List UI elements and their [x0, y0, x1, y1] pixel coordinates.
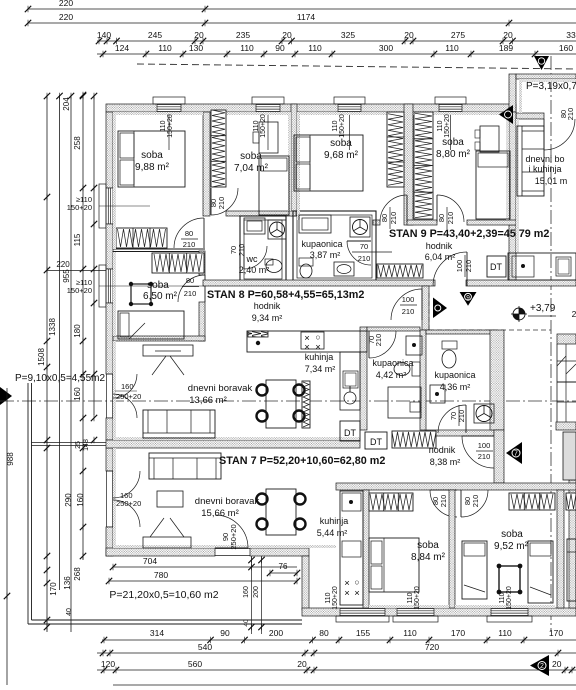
- svg-text:210: 210: [439, 495, 448, 508]
- svg-text:955: 955: [62, 269, 71, 283]
- exterior wall left: [106, 112, 113, 188]
- svg-text:210: 210: [358, 254, 371, 263]
- svg-text:115: 115: [73, 233, 82, 246]
- svg-text:×: ×: [304, 342, 310, 353]
- doormat hodnik 8,38: [392, 431, 436, 448]
- kitchen sink right STAN9: [556, 257, 571, 276]
- svg-text:7,04 m²: 7,04 m²: [234, 163, 269, 174]
- wardrobe soba 8,80: [414, 112, 433, 219]
- bed soba 9,52 right: [528, 541, 553, 603]
- svg-text:250+20: 250+20: [116, 499, 141, 508]
- svg-text:○: ○: [315, 332, 320, 342]
- wall soba 7,04 bottom: [226, 211, 296, 216]
- dashed parcel boundary line: [137, 64, 576, 69]
- exterior wall bottom STAN 7 (south of living room): [106, 548, 215, 556]
- door soba 9,88 (corridor entry) arc 80/210: [174, 218, 204, 248]
- kupaonica 3,87 door 70/210: [347, 241, 371, 265]
- svg-text:dnevni boravak: dnevni boravak: [188, 383, 253, 394]
- svg-text:110: 110: [308, 43, 322, 53]
- screed band soba 9,88: [113, 112, 203, 115]
- svg-text:560: 560: [188, 659, 202, 669]
- svg-text:110: 110: [499, 592, 506, 603]
- svg-text:90: 90: [220, 628, 230, 638]
- window soba 8,80: [439, 105, 462, 112]
- svg-text:110: 110: [403, 628, 417, 638]
- bed soba 9,88: [118, 131, 185, 187]
- svg-text:15,66 m²: 15,66 m²: [201, 508, 239, 519]
- corridor wall y280 (STAN9 bottom): [203, 280, 435, 286]
- svg-text:8,38 m²: 8,38 m²: [430, 457, 461, 467]
- svg-text:160: 160: [559, 43, 573, 53]
- exterior wall vertical step at terrace corner: [302, 556, 309, 610]
- svg-text:200: 200: [253, 586, 260, 598]
- svg-text:110: 110: [325, 592, 332, 603]
- terrace inner step dims: [251, 556, 253, 634]
- svg-text:540: 540: [198, 642, 212, 652]
- screed band soba 8,80: [413, 112, 509, 115]
- svg-text:210: 210: [183, 240, 196, 249]
- leftmost vertical dim line bottom: [6, 388, 8, 685]
- bed soba 9,68: [294, 135, 363, 191]
- svg-text:7,34 m²: 7,34 m²: [305, 364, 336, 374]
- dimension line top row 4 (124 110 130 110 90 110 300 110 189 160): [97, 53, 576, 55]
- svg-text:210: 210: [446, 212, 455, 225]
- window axis line soba 9,88 left: [99, 205, 150, 207]
- baby cot soba 9,52: [499, 566, 520, 592]
- svg-text:90: 90: [275, 43, 285, 53]
- exterior wall top: [106, 104, 516, 112]
- dining table STAN 8: [266, 380, 296, 428]
- bed soba 8,84: [369, 538, 419, 592]
- toilet kupaonica 3,87: [299, 258, 313, 266]
- window soba 7,04: [256, 105, 280, 112]
- svg-text:250+20: 250+20: [116, 392, 141, 401]
- wall soba 9,68 right closet divider: [404, 104, 413, 225]
- svg-text:160: 160: [76, 493, 85, 507]
- svg-text:210: 210: [464, 260, 473, 273]
- sink kupaonica 3,87: [334, 262, 354, 276]
- svg-text:13,66 m²: 13,66 m²: [189, 395, 227, 406]
- balcony top right walls: [509, 74, 516, 112]
- svg-text:9,88 m²: 9,88 m²: [135, 162, 170, 173]
- dim line bottom row2 (540 720): [97, 652, 576, 654]
- svg-text:80: 80: [186, 276, 194, 285]
- svg-text:kupaonica: kupaonica: [434, 370, 475, 380]
- stair hall landing edge line (dashed): [429, 329, 551, 331]
- shower kupaonica 4,42: [388, 387, 421, 418]
- svg-text:110: 110: [332, 120, 339, 131]
- svg-text:314: 314: [150, 628, 164, 638]
- window soba 8,84: [340, 609, 385, 616]
- svg-text:P=3,19x0,7: P=3,19x0,7: [526, 81, 576, 92]
- stair hall lower wall: [490, 330, 504, 430]
- partial bed far right: [567, 539, 576, 601]
- svg-text:○: ○: [354, 577, 359, 587]
- window soba 9,68: [338, 105, 361, 112]
- svg-text:hodnik: hodnik: [426, 241, 453, 251]
- svg-text:2: 2: [572, 309, 576, 319]
- desk soba 7,04: [259, 122, 278, 153]
- svg-text:76: 76: [279, 562, 288, 571]
- wardrobe soba 9,68: [387, 112, 404, 187]
- dim line 704 (y567): [113, 566, 297, 568]
- exterior wall right wing: [509, 112, 516, 225]
- svg-text:210: 210: [471, 495, 480, 508]
- svg-text:210: 210: [478, 452, 491, 461]
- divider wall STAN8/STAN7: [106, 440, 360, 448]
- washer wc: [268, 220, 286, 239]
- svg-text:6,50 m²: 6,50 m²: [143, 291, 178, 302]
- stair hall left wall: [422, 286, 429, 330]
- svg-text:kuhinja: kuhinja: [320, 516, 349, 526]
- svg-text:15,01 m: 15,01 m: [535, 176, 568, 186]
- dimension line top row 2 (220 / 1174): [28, 22, 576, 24]
- section marker triangle top right area (left-pointing): [499, 105, 513, 124]
- svg-text:150+20: 150+20: [167, 114, 174, 138]
- screed band dnevni STAN 7: [113, 545, 336, 548]
- svg-text:wc: wc: [246, 254, 258, 264]
- entrance door STAN 9 arc 100/210: [433, 252, 467, 286]
- svg-text:20: 20: [552, 659, 562, 669]
- svg-text:150+20: 150+20: [339, 114, 346, 138]
- window sill left upper: [99, 184, 106, 228]
- wc door 70/210: [244, 246, 267, 269]
- svg-text:210: 210: [184, 289, 197, 298]
- svg-text:235: 235: [236, 30, 250, 40]
- svg-text:100: 100: [402, 295, 415, 304]
- svg-text:210: 210: [457, 410, 466, 423]
- svg-text:150+20: 150+20: [67, 203, 92, 212]
- svg-text:8,80 m²: 8,80 m²: [436, 149, 471, 160]
- wall corridor STAN9 top (y220): [373, 220, 380, 225]
- toilet wc: [265, 259, 273, 265]
- window soba 8,84 second: [397, 609, 434, 616]
- svg-text:4,36 m²: 4,36 m²: [440, 382, 471, 392]
- svg-text:325: 325: [341, 30, 355, 40]
- wall hodnik 8,38 bottom (y483): [336, 483, 576, 490]
- wall soba 6,50 right: [199, 251, 205, 275]
- dim 76 at step: [270, 572, 297, 574]
- svg-text:704: 704: [143, 556, 157, 566]
- screed band soba 7,04: [226, 112, 291, 115]
- svg-text:3,87 m²: 3,87 m²: [310, 250, 341, 260]
- staircase lower wall band: [556, 422, 576, 430]
- toilet kupaonica 4,36: [442, 341, 457, 349]
- svg-text:20: 20: [297, 659, 307, 669]
- svg-text:P=21,20x0,5=10,60 m2: P=21,20x0,5=10,60 m2: [109, 589, 218, 601]
- svg-text:110: 110: [445, 43, 459, 53]
- sink column STAN 8: [340, 352, 360, 410]
- door soba 6,50 arc 80/210: [178, 275, 205, 302]
- svg-text:110: 110: [158, 43, 172, 53]
- screed band soba 6,50: [113, 252, 116, 336]
- svg-text:33: 33: [566, 30, 576, 40]
- svg-text:DT: DT: [370, 437, 382, 447]
- svg-text:i kuhinja: i kuhinja: [528, 164, 561, 174]
- coffee table STAN 7: [157, 491, 183, 507]
- svg-text:170: 170: [49, 582, 58, 596]
- svg-text:9: 9: [466, 294, 470, 301]
- svg-text:70: 70: [360, 242, 368, 251]
- window sill left lower: [99, 265, 106, 307]
- svg-text:1508: 1508: [37, 348, 46, 366]
- svg-text:110: 110: [407, 592, 414, 603]
- svg-text:8,84 m²: 8,84 m²: [411, 552, 446, 563]
- svg-text:150+20: 150+20: [444, 114, 451, 138]
- section line vertical (dash-dot): [551, 55, 576, 57]
- wall soba 6,50 bottom: [113, 336, 205, 341]
- svg-text:210: 210: [217, 197, 226, 210]
- svg-text:4,42 m²: 4,42 m²: [376, 370, 407, 380]
- elevator shaft grey panel: [563, 432, 576, 480]
- svg-text:110: 110: [437, 120, 444, 131]
- dim line bottom row4: [113, 684, 576, 686]
- section marker triangle stair hall (down-pointing, 9): [460, 292, 477, 306]
- wall soba 8,84 / soba 9,52: [449, 490, 455, 608]
- svg-text:150+20: 150+20: [414, 586, 421, 610]
- sink wc: [244, 218, 265, 234]
- balcony door STAN 7 opening: [106, 471, 108, 527]
- svg-text:80: 80: [380, 214, 389, 222]
- svg-text:P=9,10x0,5=4,55m2: P=9,10x0,5=4,55m2: [15, 373, 106, 384]
- svg-text:9,52 m²: 9,52 m²: [494, 541, 529, 552]
- window axis line soba 6,50: [99, 285, 205, 287]
- svg-text:STAN 8 P=60,58+4,55=65,13m2: STAN 8 P=60,58+4,55=65,13m2: [207, 289, 364, 301]
- svg-text:40: 40: [66, 608, 73, 616]
- shaft DT STAN 9: [487, 256, 506, 277]
- svg-text:80: 80: [437, 214, 446, 222]
- svg-text:20: 20: [503, 30, 513, 40]
- svg-text:130: 130: [189, 43, 203, 53]
- tv cabinet STAN 8: [143, 345, 193, 356]
- balcony top right door arc 80/210: [544, 119, 575, 150]
- svg-text:hodnik: hodnik: [254, 301, 281, 311]
- window soba 9,88: [157, 105, 181, 112]
- svg-text:258: 258: [73, 136, 82, 150]
- svg-text:kupaonica: kupaonica: [372, 358, 413, 368]
- svg-text:200: 200: [269, 628, 283, 638]
- kupaonica 4,42 door 70/210: [369, 331, 396, 358]
- svg-text:155: 155: [356, 628, 370, 638]
- kupaonica 3,87 walls: [293, 211, 376, 282]
- staircase treads: [556, 344, 558, 422]
- staircase upper wall band: [557, 334, 576, 344]
- svg-text:120: 120: [101, 659, 115, 669]
- section marker triangle stair hall right-pointing: [433, 298, 447, 319]
- sofa STAN 8: [143, 410, 215, 438]
- entrance door STAN 8 arc 100/210: [391, 289, 422, 320]
- dimension line top row 1 (220): [28, 8, 576, 10]
- svg-text:250+20: 250+20: [229, 524, 238, 549]
- svg-text:204: 204: [62, 97, 71, 111]
- svg-text:290: 290: [64, 493, 73, 507]
- kupaonica 4,42 walls: [360, 327, 367, 430]
- svg-text:150+20: 150+20: [260, 114, 267, 138]
- svg-text:1338: 1338: [48, 318, 57, 336]
- bed soba 8,80: [476, 151, 510, 219]
- left vertical dimension lines: [46, 95, 48, 632]
- entrance door STAN 7 arc 100/210: [462, 436, 494, 468]
- svg-text:245: 245: [148, 30, 162, 40]
- washer kupaonica 4,36: [474, 404, 494, 423]
- kitchen counter STAN9 corridor: [508, 253, 576, 280]
- wc walls: [240, 216, 286, 283]
- hob STAN 8: [301, 332, 324, 349]
- svg-text:160: 160: [121, 382, 134, 391]
- svg-text:170: 170: [549, 628, 563, 638]
- shaft DT STAN 8: [340, 421, 360, 441]
- screed band balkon top: [519, 79, 576, 82]
- tv STAN 7: [143, 537, 191, 548]
- svg-text:×: ×: [315, 342, 321, 353]
- svg-text:9,34 m²: 9,34 m²: [252, 313, 283, 323]
- wardrobe neighbour apartment (right edge): [566, 493, 576, 510]
- svg-text:DT: DT: [344, 428, 356, 438]
- window soba 9,52: [491, 609, 528, 616]
- svg-text:2: 2: [540, 663, 544, 670]
- svg-text:5,44 m²: 5,44 m²: [317, 528, 348, 538]
- balcony divider thin line: [32, 442, 107, 444]
- sink kupaonica 4,36: [430, 385, 445, 403]
- section marker triangle top (down-pointing): [534, 56, 549, 70]
- svg-text:6,04 m²: 6,04 m²: [425, 252, 456, 262]
- baby cot soba 6,50: [131, 284, 151, 304]
- wall soba 8,80 right: [509, 225, 516, 280]
- elevation marker +3,79: [511, 306, 527, 322]
- window sills (exterior) bottom wall: [336, 616, 389, 622]
- svg-text:210: 210: [402, 307, 415, 316]
- sofa STAN 7: [149, 453, 221, 479]
- svg-text:220: 220: [56, 260, 70, 269]
- wardrobe soba 9,88 south: [116, 228, 167, 248]
- wall soba 9,88 right: [203, 112, 210, 216]
- svg-text:780: 780: [154, 570, 168, 580]
- dining table STAN 7: [266, 489, 296, 535]
- svg-text:148: 148: [83, 439, 90, 451]
- window left upper: [106, 188, 113, 224]
- svg-text:210: 210: [389, 212, 398, 225]
- svg-text:soba: soba: [330, 138, 352, 149]
- svg-text:kuhinja: kuhinja: [305, 352, 334, 362]
- screed band soba 9,52: [455, 605, 555, 608]
- shaft DT STAN 7: [365, 432, 387, 449]
- kupaonica 4,36 walls: [426, 330, 494, 334]
- wall kuhinja 5,44 right / soba 8,84 left: [363, 490, 369, 608]
- svg-text:150+20: 150+20: [67, 286, 92, 295]
- bed soba 6,50: [118, 311, 184, 339]
- svg-text:300: 300: [379, 43, 393, 53]
- svg-text:+3,79: +3,79: [530, 303, 556, 314]
- screed band dnevni STAN 8: [113, 437, 360, 440]
- door soba 7,04 arc 80/210: [211, 188, 238, 215]
- svg-text:20: 20: [194, 30, 204, 40]
- tv antenna lines STAN 8: [152, 356, 166, 375]
- svg-text:170: 170: [451, 628, 465, 638]
- svg-text:110: 110: [498, 628, 512, 638]
- svg-text:150+20: 150+20: [332, 586, 339, 610]
- svg-text:soba: soba: [417, 540, 439, 551]
- screed band soba 9,68: [297, 112, 407, 115]
- svg-text:210: 210: [237, 244, 246, 257]
- svg-text:110: 110: [160, 120, 167, 131]
- window left lower (soba 6,50): [106, 269, 113, 303]
- desk soba 8,80: [480, 126, 499, 152]
- svg-text:40: 40: [243, 619, 250, 627]
- svg-text:dnevni boravak: dnevni boravak: [195, 496, 260, 507]
- dim line 780 (y581): [109, 580, 297, 582]
- svg-text:soba: soba: [501, 529, 523, 540]
- svg-text:2,40 m²: 2,40 m²: [239, 265, 270, 275]
- svg-text:220: 220: [59, 12, 73, 22]
- exterior wall bottom (south rooms): [302, 608, 576, 616]
- door soba 9,68 arc 80/210: [380, 195, 407, 222]
- svg-text:STAN 9 P=43,40+2,39=45,79 m2: STAN 9 P=43,40+2,39=45,79 m2: [389, 228, 549, 240]
- dim line bottom row1 (314 90 200 80 155 110 170 110 170): [102, 639, 576, 641]
- staircase break lines: [557, 356, 566, 366]
- window sills (exterior) top wall: [153, 97, 185, 104]
- svg-text:dnevni bo: dnevni bo: [525, 154, 564, 164]
- svg-text:150+20: 150+20: [506, 586, 513, 610]
- doormat hodnik 6,04: [377, 264, 423, 278]
- svg-text:20: 20: [282, 30, 292, 40]
- svg-text:80: 80: [185, 229, 193, 238]
- kitchen counter STAN 8: [247, 331, 367, 352]
- svg-text:180: 180: [73, 324, 82, 338]
- svg-text:20: 20: [404, 30, 414, 40]
- section line horizontal (dash-dot): [0, 400, 576, 402]
- door soba 8,80 arc 80/210: [437, 195, 464, 222]
- svg-text:124: 124: [115, 43, 129, 53]
- toilet kupaonica 4,42: [412, 362, 420, 376]
- wardrobe soba 9,88/7,04 strip: [211, 110, 226, 187]
- svg-text:soba: soba: [141, 150, 163, 161]
- bed soba 9,52 left: [462, 541, 487, 599]
- balcony door STAN 7 arcs: [113, 471, 140, 498]
- terrace boundary P=21,20 outline: [27, 383, 29, 624]
- svg-text:210: 210: [374, 334, 383, 347]
- svg-text:275: 275: [451, 30, 465, 40]
- dimension line top row 3 (140 245 20 235 20 325 20 275 20 33..): [97, 40, 576, 42]
- sofa dnevni 15,01: [517, 126, 544, 196]
- terrace door STAN 7 opening: [215, 548, 250, 550]
- bed soba 7,04: [259, 156, 289, 215]
- wardrobe soba 6,50 lower: [152, 253, 204, 273]
- svg-text:100: 100: [478, 441, 491, 450]
- svg-text:80: 80: [319, 628, 329, 638]
- svg-text:×: ×: [354, 588, 360, 599]
- svg-text:7: 7: [514, 451, 518, 458]
- svg-text:1174: 1174: [297, 12, 316, 22]
- wall soba 9,52 right: [557, 490, 564, 608]
- svg-text:189: 189: [499, 43, 513, 53]
- section marker triangle lower stair (left-pointing with 7): [506, 442, 522, 464]
- wardrobe soba 8,84: [369, 493, 413, 511]
- svg-text:140: 140: [97, 30, 111, 40]
- balcony door STAN 8 arcs: [113, 374, 137, 398]
- window axis lines top wall: [168, 112, 170, 150]
- wall soba 7,04 right / soba 9,68 left: [291, 104, 297, 216]
- svg-text:×: ×: [344, 588, 350, 599]
- svg-text:110: 110: [240, 43, 254, 53]
- svg-text:210: 210: [566, 108, 575, 121]
- svg-text:136: 136: [63, 576, 72, 590]
- washer kupaonica 3,87: [350, 217, 370, 237]
- wardrobe soba 9,52: [509, 493, 555, 510]
- svg-text:160: 160: [243, 586, 250, 598]
- terrace door STAN 7 arc: [215, 515, 248, 548]
- svg-text:720: 720: [425, 642, 439, 652]
- bathtub kupaonica 3,87: [299, 215, 331, 233]
